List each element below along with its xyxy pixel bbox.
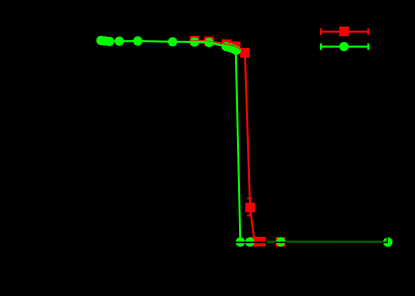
legend red sample: errorbar line with caps and square xyxy=(320,28,368,35)
black right border stub over final circle xyxy=(387,237,388,243)
wire: red line overlay (brown stripe across green circles) xyxy=(190,41,241,50)
wire: red curve polyline xyxy=(195,41,255,242)
red error bar at x=250 xyxy=(247,198,252,215)
wire: dark green bottom line (axis-dimmed) xyxy=(240,240,387,243)
red square markers xyxy=(190,36,286,247)
wire: green curve polyline xyxy=(101,40,240,242)
wire: dark red bottom segment xyxy=(255,241,281,243)
green circle markers xyxy=(96,36,392,247)
black bottom axis drawn on top (visible only across markers) xyxy=(235,242,268,244)
legend green sample: errorbar line with caps and circle xyxy=(320,43,368,50)
